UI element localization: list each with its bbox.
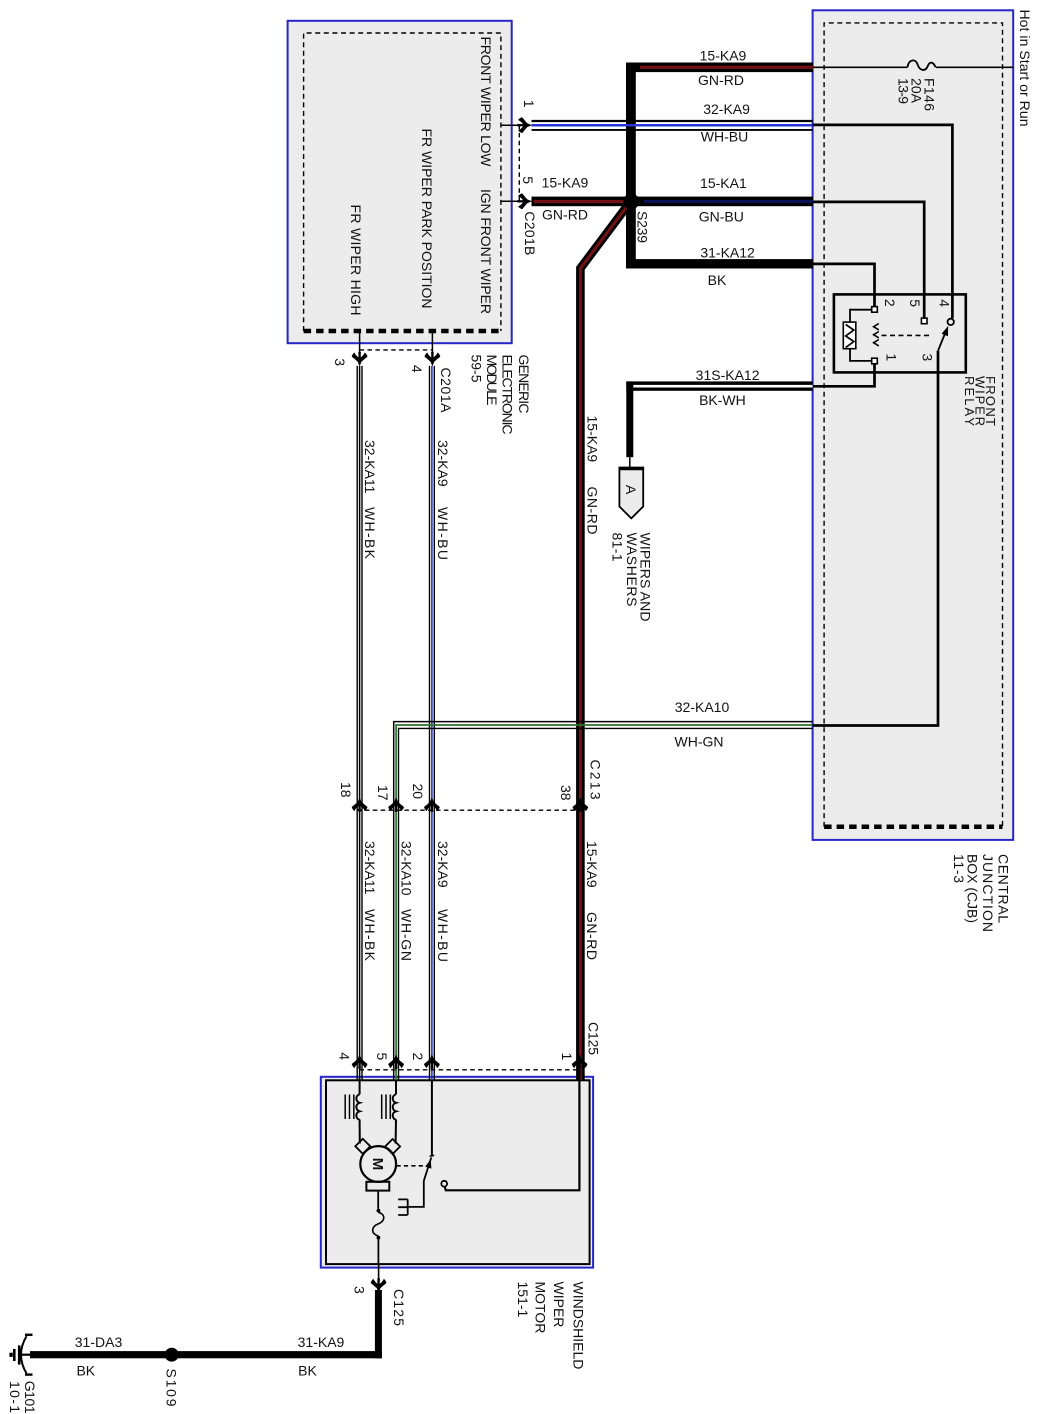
- svg-text:5: 5: [907, 299, 923, 307]
- svg-text:GN-RD: GN-RD: [542, 207, 588, 223]
- svg-text:FR WIPER HIGH: FR WIPER HIGH: [348, 205, 364, 316]
- svg-text:WASHERS: WASHERS: [624, 533, 640, 607]
- svg-text:18: 18: [338, 782, 354, 798]
- svg-text:WH-BU: WH-BU: [701, 129, 748, 145]
- svg-text:MOTOR: MOTOR: [532, 1282, 548, 1334]
- svg-text:1: 1: [883, 353, 899, 361]
- svg-text:15-KA9: 15-KA9: [584, 841, 600, 888]
- svg-text:G101: G101: [22, 1381, 38, 1414]
- svg-text:15-KA9: 15-KA9: [700, 48, 747, 64]
- svg-text:13-9: 13-9: [896, 78, 912, 104]
- svg-text:C125: C125: [391, 1289, 407, 1326]
- svg-text:C201A: C201A: [438, 368, 454, 414]
- svg-text:38: 38: [558, 785, 574, 801]
- svg-text:IGN FRONT WIPER: IGN FRONT WIPER: [478, 189, 494, 314]
- svg-text:11-3: 11-3: [951, 854, 967, 883]
- svg-text:10-1: 10-1: [7, 1381, 23, 1413]
- svg-text:WH-BK: WH-BK: [362, 507, 378, 560]
- svg-text:BK: BK: [76, 1363, 95, 1379]
- svg-text:3: 3: [351, 1286, 367, 1294]
- svg-text:17: 17: [375, 785, 391, 801]
- svg-text:FR WIPER PARK POSITION: FR WIPER PARK POSITION: [419, 129, 435, 309]
- svg-text:59-5: 59-5: [468, 355, 484, 383]
- svg-text:JUNCTION: JUNCTION: [980, 854, 996, 932]
- svg-text:31-DA3: 31-DA3: [75, 1334, 123, 1350]
- svg-text:WIPER: WIPER: [551, 1282, 567, 1328]
- svg-text:M: M: [369, 1158, 386, 1171]
- svg-text:WINDSHIELD: WINDSHIELD: [571, 1282, 587, 1370]
- svg-text:4: 4: [409, 365, 425, 373]
- svg-text:32-KA9: 32-KA9: [435, 440, 451, 487]
- svg-text:151-1: 151-1: [515, 1282, 531, 1318]
- svg-text:GN-RD: GN-RD: [698, 72, 744, 88]
- svg-text:15-KA9: 15-KA9: [542, 175, 589, 191]
- svg-text:BK: BK: [298, 1363, 317, 1379]
- svg-text:WH-GN: WH-GN: [675, 734, 724, 750]
- svg-text:1: 1: [521, 100, 537, 108]
- svg-text:FRONT WIPER LOW: FRONT WIPER LOW: [478, 37, 494, 168]
- svg-text:4: 4: [336, 1052, 352, 1060]
- svg-text:31-KA9: 31-KA9: [298, 1334, 345, 1350]
- svg-text:3: 3: [919, 353, 935, 361]
- svg-text:31S-KA12: 31S-KA12: [696, 367, 760, 383]
- svg-text:Hot in Start or Run: Hot in Start or Run: [1017, 10, 1033, 127]
- svg-text:GN-RD: GN-RD: [584, 912, 600, 960]
- svg-text:C201B: C201B: [522, 211, 538, 255]
- svg-text:3: 3: [332, 358, 348, 366]
- svg-text:RELAY: RELAY: [962, 376, 977, 426]
- svg-text:WH-BU: WH-BU: [435, 909, 451, 962]
- svg-text:WH-BU: WH-BU: [435, 507, 451, 560]
- svg-text:32-KA11: 32-KA11: [362, 841, 378, 895]
- svg-text:32-KA11: 32-KA11: [362, 440, 378, 494]
- svg-text:GN-RD: GN-RD: [585, 487, 601, 535]
- svg-text:WH-BK: WH-BK: [362, 909, 378, 962]
- svg-text:32-KA9: 32-KA9: [435, 841, 451, 888]
- svg-text:32-KA10: 32-KA10: [675, 699, 730, 715]
- svg-text:GN-BU: GN-BU: [699, 209, 744, 225]
- svg-text:WH-GN: WH-GN: [399, 909, 415, 961]
- svg-text:5: 5: [374, 1053, 390, 1061]
- svg-text:ELECTRONIC: ELECTRONIC: [499, 355, 515, 435]
- svg-text:31-KA12: 31-KA12: [700, 245, 755, 261]
- svg-text:C125: C125: [586, 1022, 602, 1055]
- svg-text:32-KA9: 32-KA9: [703, 101, 750, 117]
- svg-text:2: 2: [410, 1053, 426, 1061]
- svg-text:4: 4: [937, 299, 953, 307]
- svg-text:15-KA9: 15-KA9: [585, 416, 601, 463]
- svg-text:81-1: 81-1: [609, 533, 625, 562]
- svg-text:BK: BK: [708, 272, 727, 288]
- svg-text:20: 20: [410, 784, 426, 800]
- svg-text:CENTRAL: CENTRAL: [996, 854, 1012, 923]
- svg-text:A: A: [623, 485, 639, 495]
- svg-text:32-KA10: 32-KA10: [399, 841, 415, 896]
- svg-text:1: 1: [559, 1053, 575, 1061]
- svg-text:MODULE: MODULE: [484, 355, 500, 406]
- svg-text:BK-WH: BK-WH: [699, 392, 746, 408]
- svg-text:S239: S239: [635, 211, 651, 243]
- svg-text:2: 2: [882, 299, 898, 307]
- svg-text:15-KA1: 15-KA1: [700, 175, 747, 191]
- svg-text:5: 5: [520, 176, 536, 184]
- svg-text:GENERIC: GENERIC: [516, 355, 532, 414]
